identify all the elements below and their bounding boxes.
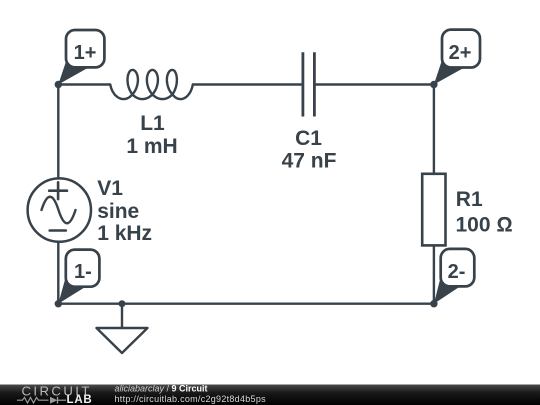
node dot top-right (430, 81, 437, 88)
terminal box 2- (441, 249, 475, 287)
svg-text:2+: 2+ (449, 42, 472, 64)
wire capacitor-to-right (314, 83, 434, 85)
voltage source V1 (28, 178, 91, 241)
V1 sine symbol (42, 197, 76, 224)
wire top-left (58, 83, 110, 85)
terminal box 2+ (442, 30, 480, 68)
wire inductor-to-capacitor (193, 83, 303, 85)
resistor R1 (422, 174, 445, 246)
logo resistor zigzag (17, 397, 49, 403)
svg-text:2-: 2- (448, 261, 466, 283)
svg-text:1+: 1+ (74, 42, 97, 64)
capacitor C1 (303, 52, 315, 116)
V1 minus sign (50, 229, 66, 232)
node dot bottom-left (55, 300, 62, 307)
wire left rail lower (57, 242, 59, 304)
svg-text:http://circuitlab.com/c2g92t8d: http://circuitlab.com/c2g92t8d4b5ps (115, 394, 267, 404)
svg-text:100 Ω: 100 Ω (456, 214, 513, 237)
wire right rail lower (433, 245, 435, 303)
logo diode (50, 397, 58, 404)
svg-text:47 nF: 47 nF (282, 149, 337, 172)
svg-text:V1: V1 (97, 177, 123, 200)
inductor L1 (110, 70, 193, 99)
wire bottom rail (58, 303, 434, 305)
svg-text:aliciabarclay / 9 Circuit: aliciabarclay / 9 Circuit (115, 383, 208, 393)
svg-text:C1: C1 (295, 127, 322, 150)
terminal box 1+ (66, 30, 104, 67)
svg-text:1 kHz: 1 kHz (97, 222, 152, 245)
V1 plus sign (49, 182, 67, 199)
pointer wedge 2- (434, 275, 460, 304)
terminal box 1- (66, 250, 100, 287)
ground junction dot (119, 300, 126, 307)
wire right rail upper (433, 85, 435, 175)
svg-text:1 mH: 1 mH (126, 135, 177, 158)
node dot top-left (55, 81, 62, 88)
svg-text:LAB: LAB (67, 394, 93, 405)
ground symbol (97, 328, 148, 353)
ground stem wire (121, 304, 123, 328)
svg-text:R1: R1 (456, 188, 483, 211)
pointer wedge 2+ (434, 56, 464, 85)
svg-text:sine: sine (97, 200, 139, 223)
pointer wedge 1+ (58, 56, 88, 85)
svg-text:L1: L1 (140, 112, 165, 135)
svg-text:1-: 1- (74, 261, 92, 283)
pointer wedge 1- (58, 275, 86, 304)
wire left rail upper (57, 85, 59, 179)
node dot bottom-right (430, 300, 437, 307)
